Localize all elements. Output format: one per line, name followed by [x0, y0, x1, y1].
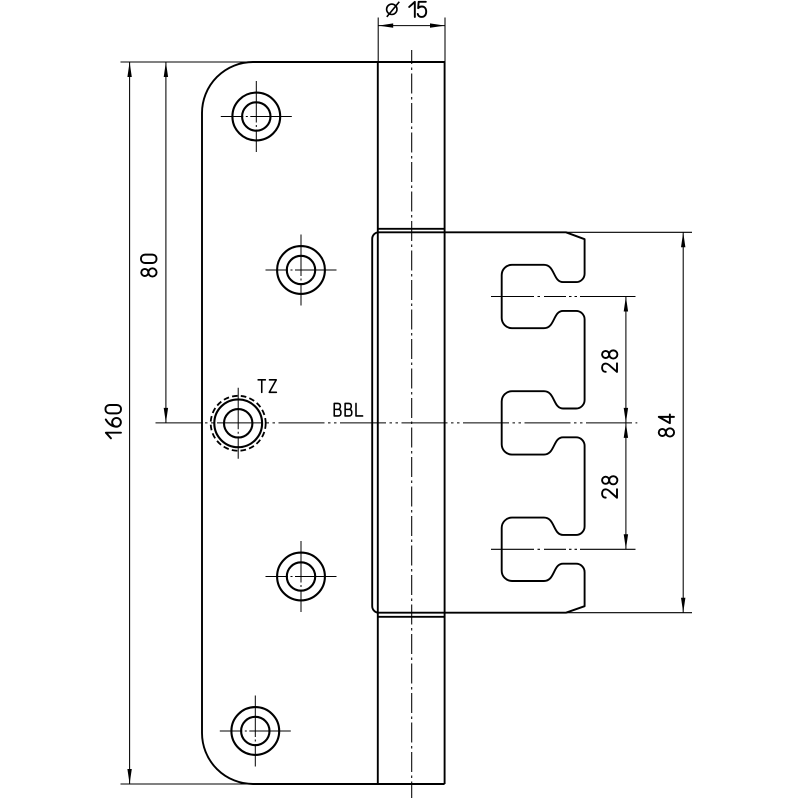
dimension 28 upper: [602, 297, 628, 423]
slot 3 centerline: [491, 548, 636, 550]
barrel vertical centerline: [411, 50, 413, 798]
screw hole 2: [266, 235, 337, 306]
label TZ: [258, 380, 276, 393]
screw hole 3 (TZ hole): [211, 388, 266, 459]
screw hole 1: [221, 81, 292, 152]
right hinge leaf (comb) outline: [372, 232, 584, 612]
label BBL: [334, 403, 362, 416]
main horizontal centerline BBL: [156, 422, 638, 424]
dimension 84: [560, 232, 692, 612]
knuckle bottom line: [378, 616, 445, 618]
extension line bottom (160 dim): [121, 783, 256, 785]
dimension 160 line: [106, 62, 132, 784]
extension line top (160/80 dims): [121, 61, 256, 63]
screw hole 5: [220, 696, 291, 767]
slot 1 centerline: [491, 296, 636, 298]
hinge barrel left edge: [377, 62, 379, 784]
dimension 80 line: [141, 62, 168, 423]
screw hole 4: [266, 541, 337, 612]
hinge barrel right edge: [444, 62, 446, 784]
knuckle top line: [378, 228, 445, 230]
dimension dia-15: [378, 2, 445, 62]
left hinge leaf outline: [202, 62, 445, 784]
dimension 28 lower: [602, 423, 628, 549]
